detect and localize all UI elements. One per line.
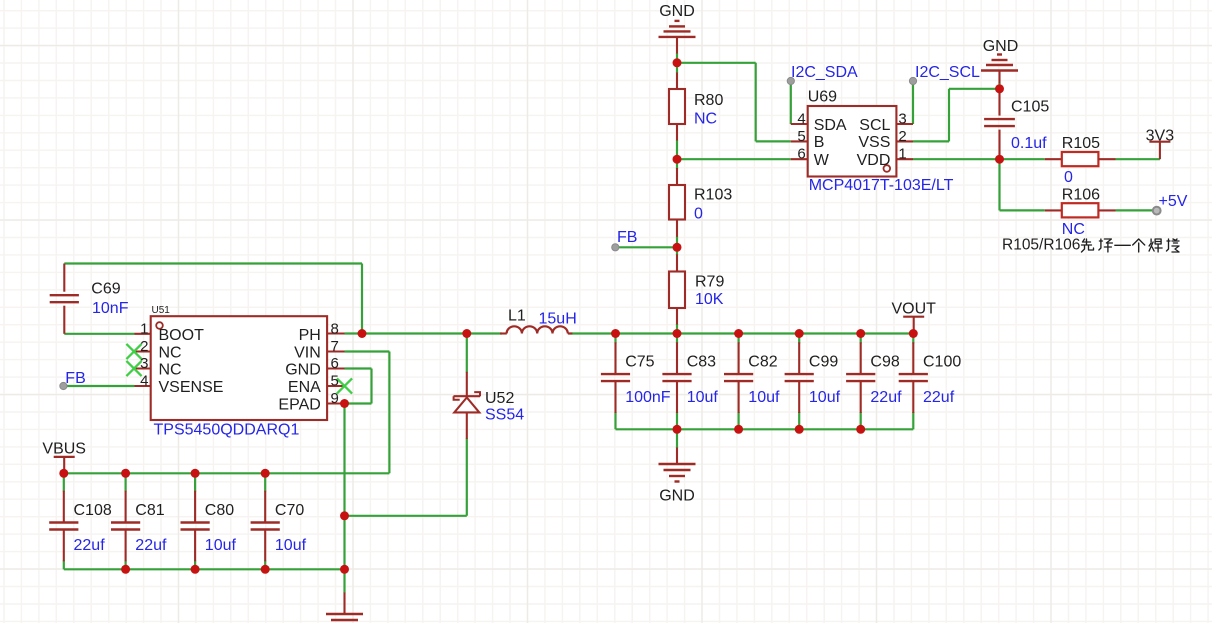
svg-text:FB: FB [617, 229, 637, 246]
svg-text:7: 7 [331, 338, 339, 355]
svg-text:VSENSE: VSENSE [159, 379, 224, 396]
svg-text:10nF: 10nF [92, 300, 129, 317]
svg-text:C108: C108 [74, 502, 112, 519]
svg-text:10uf: 10uf [205, 537, 237, 554]
svg-text:GND: GND [659, 487, 695, 504]
svg-text:B: B [814, 134, 825, 151]
svg-text:4: 4 [140, 373, 148, 390]
svg-text:22uf: 22uf [135, 537, 167, 554]
svg-text:0: 0 [1064, 169, 1073, 186]
svg-text:SCL: SCL [859, 117, 890, 134]
svg-text:8: 8 [331, 321, 339, 338]
svg-text:1: 1 [898, 146, 906, 163]
svg-text:0.1uf: 0.1uf [1011, 135, 1047, 152]
svg-text:22uf: 22uf [923, 389, 955, 406]
svg-text:3: 3 [898, 111, 906, 128]
svg-text:6: 6 [331, 355, 339, 372]
svg-text:BOOT: BOOT [159, 327, 205, 344]
svg-text:3V3: 3V3 [1146, 128, 1175, 145]
svg-text:5: 5 [797, 128, 805, 145]
svg-text:TPS5450QDDARQ1: TPS5450QDDARQ1 [154, 422, 300, 439]
svg-text:10uf: 10uf [687, 389, 719, 406]
svg-text:C70: C70 [275, 502, 304, 519]
svg-text:VBUS: VBUS [42, 441, 86, 458]
svg-text:R106: R106 [1062, 187, 1100, 204]
svg-text:2: 2 [898, 128, 906, 145]
svg-text:C69: C69 [91, 281, 120, 298]
svg-text:22uf: 22uf [870, 389, 902, 406]
svg-text:22uf: 22uf [74, 537, 106, 554]
svg-text:4: 4 [797, 111, 805, 128]
svg-text:VIN: VIN [294, 344, 321, 361]
svg-text:SS54: SS54 [485, 407, 524, 424]
svg-text:0: 0 [694, 206, 703, 223]
svg-text:PH: PH [299, 327, 321, 344]
svg-text:FB: FB [65, 370, 85, 387]
svg-text:C80: C80 [205, 502, 234, 519]
svg-text:VDD: VDD [857, 152, 891, 169]
svg-text:VSS: VSS [858, 134, 890, 151]
svg-text:C99: C99 [809, 354, 838, 371]
svg-text:9: 9 [331, 390, 339, 407]
svg-text:C83: C83 [687, 354, 716, 371]
svg-text:C81: C81 [135, 502, 164, 519]
svg-text:10uf: 10uf [275, 537, 307, 554]
svg-text:W: W [814, 152, 830, 169]
svg-text:VOUT: VOUT [891, 301, 936, 318]
svg-text:6: 6 [797, 146, 805, 163]
svg-text:C105: C105 [1011, 99, 1049, 116]
svg-text:I2C_SCL: I2C_SCL [915, 64, 980, 81]
svg-text:1: 1 [140, 321, 148, 338]
svg-text:2: 2 [140, 338, 148, 355]
svg-text:C75: C75 [625, 354, 654, 371]
svg-text:MCP4017T-103E/LT: MCP4017T-103E/LT [809, 177, 954, 194]
svg-text:NC: NC [159, 344, 182, 361]
svg-text:R79: R79 [695, 274, 724, 291]
svg-text:C100: C100 [923, 354, 961, 371]
svg-text:100nF: 100nF [625, 389, 671, 406]
svg-text:U52: U52 [485, 390, 514, 407]
svg-text:R80: R80 [694, 92, 723, 109]
svg-text:GND: GND [285, 361, 321, 378]
svg-text:U69: U69 [808, 89, 837, 106]
svg-text:10uf: 10uf [748, 389, 780, 406]
svg-text:10K: 10K [695, 291, 724, 308]
svg-text:15uH: 15uH [539, 311, 577, 328]
svg-text:NC: NC [694, 111, 717, 128]
svg-text:SDA: SDA [814, 117, 847, 134]
svg-text:L1: L1 [508, 308, 526, 325]
svg-text:R105: R105 [1062, 135, 1100, 152]
svg-text:EPAD: EPAD [278, 396, 320, 413]
svg-text:GND: GND [983, 38, 1019, 55]
svg-text:5: 5 [331, 373, 339, 390]
svg-text:R105/R106: R105/R106 [1002, 236, 1080, 253]
svg-text:+5V: +5V [1159, 193, 1188, 210]
svg-text:I2C_SDA: I2C_SDA [791, 64, 858, 81]
svg-text:R103: R103 [694, 187, 732, 204]
svg-text:ENA: ENA [288, 379, 321, 396]
svg-text:GND: GND [659, 3, 695, 20]
svg-text:NC: NC [159, 361, 182, 378]
svg-text:10uf: 10uf [809, 389, 841, 406]
svg-text:C98: C98 [870, 354, 899, 371]
svg-text:C82: C82 [748, 354, 777, 371]
svg-text:U51: U51 [152, 305, 171, 316]
svg-text:3: 3 [140, 355, 148, 372]
